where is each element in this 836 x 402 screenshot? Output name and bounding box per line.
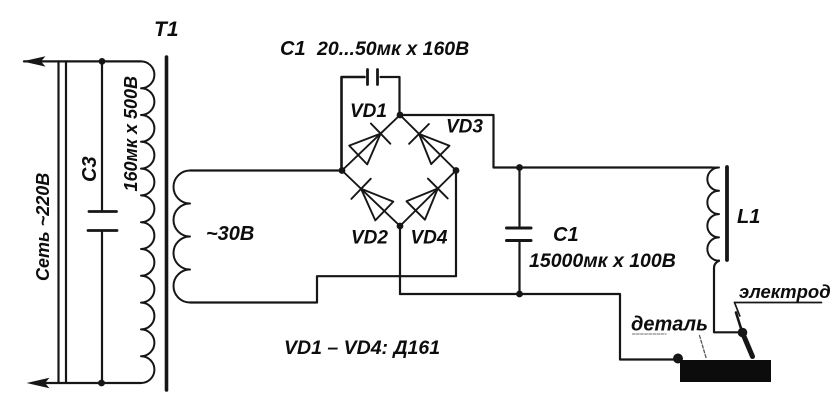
transformer T1 core xyxy=(165,57,169,390)
inductor L1 core xyxy=(725,167,729,260)
wire (mains top) xyxy=(24,60,141,62)
svg-text:VD3: VD3 xyxy=(446,117,483,138)
wire (mains vertical 2) xyxy=(65,61,67,383)
mains arrow bottom xyxy=(27,378,50,388)
svg-text:15000мк х 100В: 15000мк х 100В xyxy=(529,250,676,272)
svg-text:VD1: VD1 xyxy=(350,101,387,122)
node (filter cap bottom junction) xyxy=(516,291,523,298)
wire (L1 to electrode) xyxy=(714,261,742,333)
svg-text:С3: С3 xyxy=(79,156,101,182)
wire (secondary bottom AC return to bridge right node) xyxy=(190,171,456,303)
electrode symbol xyxy=(736,313,753,357)
svg-text:деталь: деталь xyxy=(631,314,708,336)
svg-text:электрод: электрод xyxy=(739,281,831,302)
capacitor C1 15000mk filter xyxy=(507,168,532,295)
node (bridge left) xyxy=(339,167,346,174)
wire (DC plus rail to L1) xyxy=(400,115,712,168)
svg-text:160мк х 500В: 160мк х 500В xyxy=(121,76,141,192)
diode VD2 xyxy=(342,171,400,227)
svg-text:VD1 – VD4: Д161: VD1 – VD4: Д161 xyxy=(284,337,440,359)
diode VD3 xyxy=(400,115,456,171)
diode VD4 xyxy=(400,171,456,227)
workpiece (detal) bar xyxy=(680,360,771,382)
wire (mains vertical 1) xyxy=(57,61,59,383)
svg-text:T1: T1 xyxy=(154,18,179,41)
svg-text:С120...50мк х 160В: С120...50мк х 160В xyxy=(280,38,469,60)
node (C3 bottom junction) xyxy=(98,380,105,387)
node (C3 top junction) xyxy=(99,58,106,65)
transformer T1 primary winding xyxy=(141,61,154,383)
capacitor C1 20...50mk bridging xyxy=(342,70,400,171)
wire (DC minus rail to workpiece) xyxy=(400,294,676,360)
label электрод leader xyxy=(735,303,822,317)
mains arrow top xyxy=(23,56,46,66)
label деталь leader xyxy=(633,334,707,358)
svg-text:VD4: VD4 xyxy=(411,228,448,249)
junction (wire to workpiece) xyxy=(673,354,683,364)
svg-text:Сеть ~220В: Сеть ~220В xyxy=(33,173,53,281)
node (filter cap top junction) xyxy=(516,164,523,171)
node (bridge right) xyxy=(453,167,460,174)
svg-text:~30В: ~30В xyxy=(206,223,254,245)
node (bridge bottom) xyxy=(397,223,404,230)
svg-text:L1: L1 xyxy=(737,206,760,228)
wire (mains bottom) xyxy=(45,382,141,384)
diode VD1 xyxy=(342,115,400,171)
svg-text:VD2: VD2 xyxy=(351,228,388,249)
capacitor C3 xyxy=(88,61,117,383)
transformer T1 secondary winding xyxy=(174,171,191,303)
node (bridge top) xyxy=(397,112,404,119)
inductor L1 winding xyxy=(707,168,719,261)
wire (bridge bottom lead) xyxy=(399,226,401,294)
svg-text:С1: С1 xyxy=(553,224,579,246)
wire (secondary top to bridge left node) xyxy=(190,169,342,171)
